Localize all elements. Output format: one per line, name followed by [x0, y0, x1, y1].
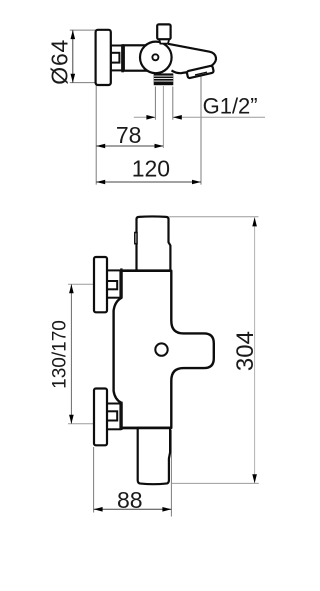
svg-text:G1/2”: G1/2” [203, 94, 258, 119]
svg-text:78: 78 [116, 122, 142, 148]
svg-text:120: 120 [132, 155, 170, 181]
svg-text:130/170: 130/170 [50, 320, 71, 389]
svg-text:304: 304 [232, 331, 259, 371]
svg-text:Ø64: Ø64 [46, 39, 72, 85]
svg-text:88: 88 [117, 487, 143, 513]
